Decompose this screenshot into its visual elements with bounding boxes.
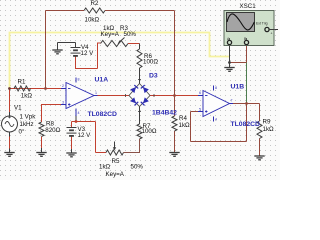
svg-text:4: 4	[78, 111, 80, 115]
svg-text:XSC1: XSC1	[240, 3, 257, 10]
svg-text:Key=A: Key=A	[101, 31, 120, 38]
svg-text:5: 5	[199, 108, 201, 112]
svg-text:8: 8	[215, 86, 217, 90]
svg-text:1kΩ: 1kΩ	[179, 122, 191, 129]
svg-text:1kΩ: 1kΩ	[21, 92, 33, 99]
svg-text:TL082CD: TL082CD	[231, 121, 261, 128]
svg-text:6: 6	[199, 91, 201, 95]
svg-text:50%: 50%	[131, 164, 144, 171]
svg-text:2: 2	[62, 84, 64, 88]
svg-text:0°: 0°	[19, 129, 25, 136]
svg-text:100Ω: 100Ω	[142, 128, 157, 135]
svg-text:D3: D3	[149, 72, 158, 79]
svg-text:12 V: 12 V	[78, 132, 92, 139]
svg-text:1kHz: 1kHz	[20, 121, 34, 128]
svg-text:V1: V1	[14, 105, 22, 112]
svg-text:1B4B42: 1B4B42	[152, 110, 177, 117]
svg-text:Key=A: Key=A	[106, 171, 125, 178]
svg-text:R4: R4	[179, 115, 187, 122]
svg-text:1kΩ: 1kΩ	[263, 126, 275, 133]
svg-text:10kΩ: 10kΩ	[85, 17, 100, 24]
svg-text:820Ω: 820Ω	[45, 127, 60, 134]
svg-text:50%: 50%	[124, 31, 137, 38]
svg-text:R1: R1	[18, 79, 26, 86]
svg-text:Ext Trig: Ext Trig	[256, 22, 268, 26]
svg-text:U1A: U1A	[95, 77, 109, 84]
svg-text:7: 7	[231, 99, 233, 103]
svg-text:12 V: 12 V	[81, 50, 95, 57]
svg-text:4: 4	[215, 118, 217, 122]
svg-text:R2: R2	[91, 0, 99, 7]
svg-text:R5: R5	[112, 158, 120, 165]
svg-text:3: 3	[62, 101, 64, 105]
svg-text:100Ω: 100Ω	[143, 59, 158, 66]
svg-text:TL082CD: TL082CD	[88, 111, 118, 118]
svg-text:1kΩ: 1kΩ	[99, 164, 111, 171]
svg-text:R9: R9	[263, 118, 271, 125]
svg-text:8: 8	[78, 78, 80, 82]
svg-text:U1B: U1B	[231, 84, 245, 91]
svg-text:+: +	[271, 32, 273, 36]
svg-text:1 Vpk: 1 Vpk	[20, 114, 37, 121]
svg-text:1: 1	[95, 91, 97, 95]
